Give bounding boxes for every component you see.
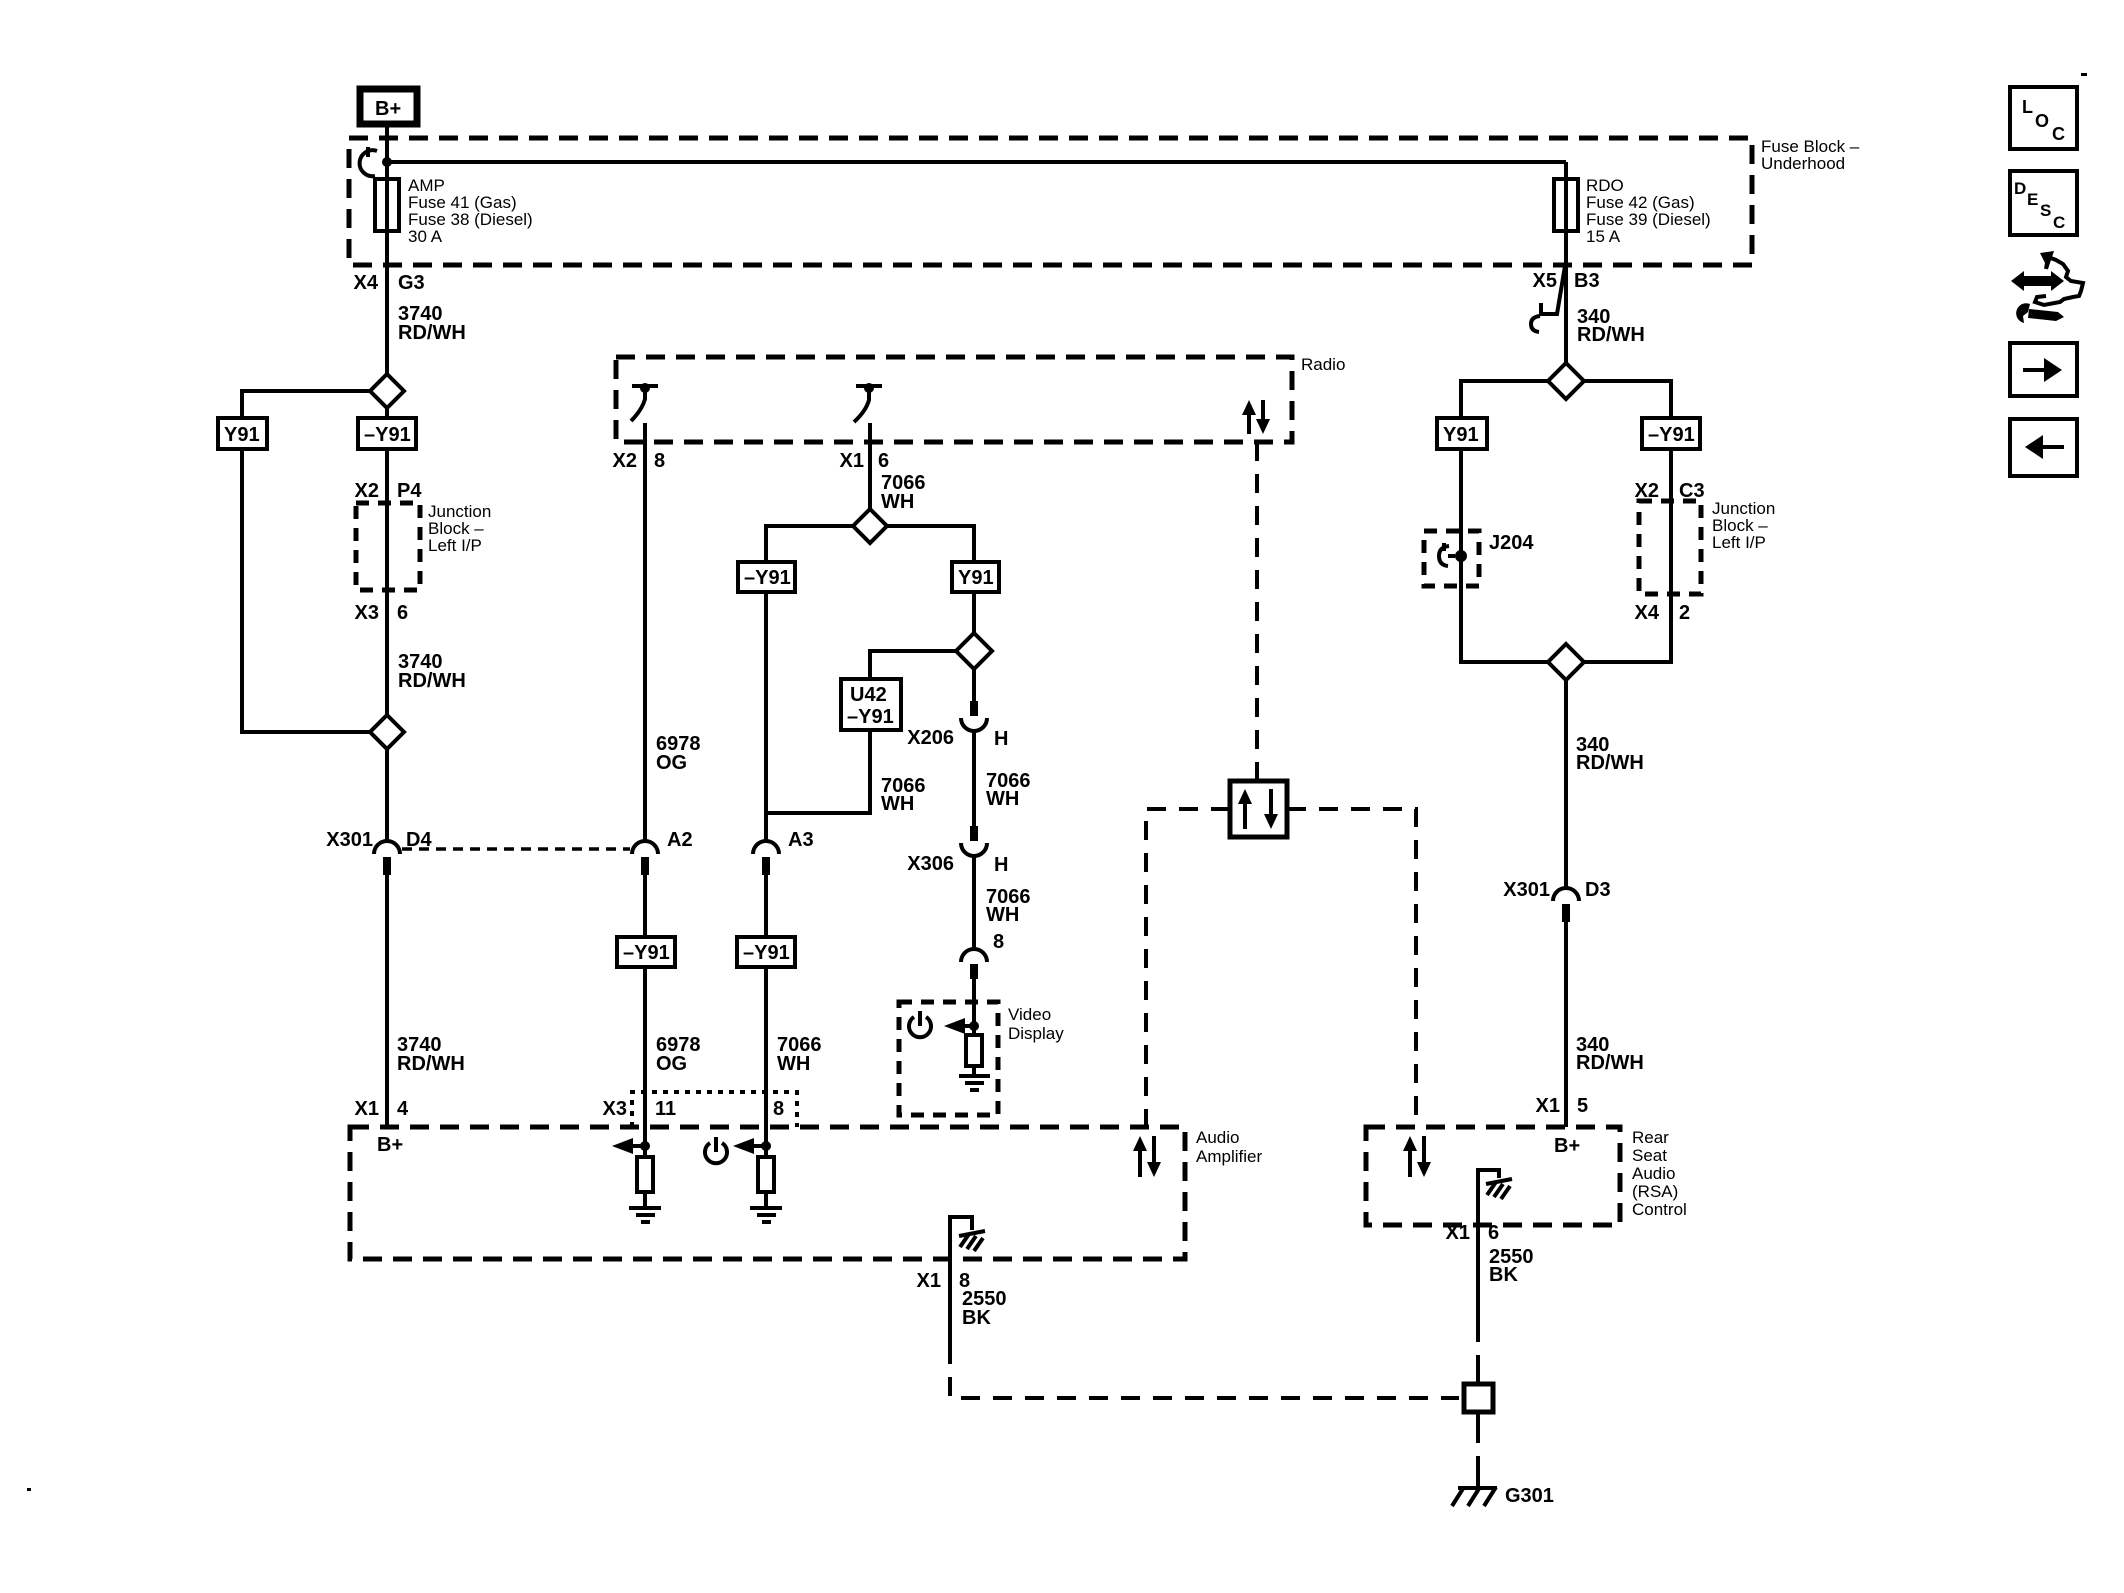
svg-text:B3: B3 <box>1574 270 1600 292</box>
Audio Amplifier dashed box <box>350 1127 1185 1259</box>
svg-text:L: L <box>2022 97 2033 117</box>
node splice diamond S4 <box>956 633 992 669</box>
pin X1 6 rsa <box>1446 1222 1500 1244</box>
svg-text:BK: BK <box>962 1307 991 1329</box>
chassis ground amp internal <box>950 1217 985 1259</box>
ground amp 1 <box>629 1192 661 1222</box>
icon DESC box <box>2010 171 2077 235</box>
svg-text:X1: X1 <box>355 1098 379 1120</box>
power symbol video <box>909 1011 931 1037</box>
splice square connector <box>1464 1372 1493 1424</box>
wire dashed link box to RSA <box>1287 809 1416 1127</box>
wire S5 to Y91 right <box>1461 381 1548 418</box>
svg-text:B+: B+ <box>1554 1135 1580 1157</box>
svg-text:RD/WH: RD/WH <box>398 322 466 344</box>
svg-text:–Y91: –Y91 <box>364 424 411 446</box>
wire -Y91 right through junction block <box>1584 449 1671 662</box>
svg-text:Underhood: Underhood <box>1761 154 1845 173</box>
pin X1 5 <box>1536 1095 1589 1117</box>
node bus junction <box>382 157 392 167</box>
svg-text:X3: X3 <box>355 602 379 624</box>
svg-text:Video: Video <box>1008 1005 1051 1024</box>
icon LOC box <box>2010 87 2077 149</box>
connector X306 H <box>907 826 1008 876</box>
node splice diamond S2 <box>370 715 404 749</box>
option box Y91 (left) <box>218 418 267 449</box>
Audio Amplifier label <box>1196 1128 1262 1166</box>
svg-text:OG: OG <box>656 1053 687 1075</box>
svg-text:Y91: Y91 <box>1443 424 1479 446</box>
option box -Y91 (amp wire 2) <box>737 937 795 967</box>
svg-text:U42: U42 <box>850 684 887 706</box>
svg-text:B+: B+ <box>377 1134 403 1156</box>
svg-text:15 A: 15 A <box>1586 227 1621 246</box>
svg-text:Control: Control <box>1632 1200 1687 1219</box>
power symbol amp <box>705 1137 727 1163</box>
pin X1 4 <box>355 1098 409 1120</box>
Rear Seat Audio RSA dashed box <box>1366 1127 1620 1225</box>
svg-text:Audio: Audio <box>1196 1128 1239 1147</box>
wire into video display <box>972 979 976 1035</box>
Radio dashed box <box>616 357 1292 442</box>
Junction Block label (left) <box>428 502 491 555</box>
Junction Block - Left I/P dashed box (right) <box>1639 501 1701 594</box>
svg-text:Y91: Y91 <box>224 424 260 446</box>
svg-text:WH: WH <box>777 1053 810 1075</box>
option box Y91 (right) <box>1437 418 1487 449</box>
switch SW1 in radio <box>631 383 658 421</box>
svg-text:Radio: Radio <box>1301 355 1345 374</box>
wire 3740 RD/WH upper <box>385 231 389 375</box>
label 340 RD/WH lower <box>1576 1034 1644 1074</box>
bus wire B+ feed <box>387 160 1566 164</box>
Fuse Block - Underhood dashed box <box>349 138 1752 265</box>
ground video <box>959 1066 990 1090</box>
Video Display dashed box <box>899 1002 998 1115</box>
svg-text:Left I/P: Left I/P <box>428 536 482 555</box>
svg-text:5: 5 <box>1577 1095 1588 1117</box>
svg-text:Y91: Y91 <box>958 567 994 589</box>
svg-text:X1: X1 <box>917 1270 941 1292</box>
B+ power source box <box>360 89 417 124</box>
svg-text:2: 2 <box>1679 602 1690 624</box>
svg-text:D3: D3 <box>1585 879 1611 901</box>
svg-text:C: C <box>2053 213 2065 232</box>
label 3740 RD/WH lower <box>397 1034 465 1075</box>
svg-text:O: O <box>2035 111 2049 131</box>
pin X1 6 <box>840 450 890 472</box>
svg-text:RD/WH: RD/WH <box>398 670 466 692</box>
RSA label <box>1632 1128 1687 1219</box>
svg-text:X4: X4 <box>1635 602 1660 624</box>
svg-text:WH: WH <box>881 793 914 815</box>
pin X2 8 <box>613 450 666 472</box>
svg-text:Seat: Seat <box>1632 1146 1667 1165</box>
svg-text:RD/WH: RD/WH <box>1576 752 1644 774</box>
pin X5 B3 <box>1533 270 1600 292</box>
label 7066 WH lower <box>777 1034 822 1075</box>
svg-text:RD/WH: RD/WH <box>1576 1052 1644 1074</box>
svg-text:E: E <box>2027 190 2038 209</box>
resistor video <box>966 1035 982 1066</box>
svg-text:BK: BK <box>1489 1264 1518 1286</box>
svg-text:WH: WH <box>881 491 914 513</box>
wire fuse RDO drop <box>1564 162 1568 179</box>
svg-text:X4: X4 <box>354 272 379 294</box>
wire X5 B3 drop <box>1564 231 1568 364</box>
wire A3 to -Y91 (amp wire 2) <box>764 875 768 937</box>
wire S4 down to X206 <box>972 669 976 703</box>
resistor amp 1 <box>637 1157 653 1192</box>
svg-text:Display: Display <box>1008 1024 1064 1043</box>
resistor amp 2 <box>758 1157 774 1192</box>
wire diamond to Y91 branch <box>242 391 370 418</box>
pin X3 6 <box>355 602 409 624</box>
wire 340 RD/WH S6 to X301 D3 <box>1564 680 1568 887</box>
wire B+ to fuse block <box>385 127 389 179</box>
connector pin 8 video display <box>961 931 1004 979</box>
svg-text:4: 4 <box>397 1098 409 1120</box>
label 340 RD/WH mid <box>1576 734 1644 774</box>
clip symbol at X5 <box>1531 266 1565 332</box>
node splice diamond S5 <box>1548 363 1584 399</box>
wire dashed to splice square <box>1476 1323 1480 1374</box>
svg-text:G301: G301 <box>1505 1485 1554 1507</box>
clip symbol at B+ feed <box>360 150 377 176</box>
Junction Block label (right) <box>1712 499 1775 552</box>
svg-text:–Y91: –Y91 <box>1648 424 1695 446</box>
wire radio X1-6 output <box>868 423 872 510</box>
svg-text:8: 8 <box>773 1098 784 1120</box>
wire Y91 to splice S4 <box>972 592 976 634</box>
label 2550 BK amp <box>962 1288 1007 1329</box>
Fuse Block label <box>1761 137 1860 173</box>
label 3740 RD/WH mid <box>398 651 466 692</box>
svg-text:–Y91: –Y91 <box>623 942 670 964</box>
pin X4 G3 <box>354 272 425 294</box>
svg-text:–Y91: –Y91 <box>743 942 790 964</box>
ground amp 2 <box>750 1192 782 1222</box>
fuse F42 RDO <box>1554 179 1578 231</box>
icon arrow right box <box>2010 343 2077 396</box>
svg-text:RD/WH: RD/WH <box>1577 324 1645 346</box>
icon arrow left box <box>2010 419 2077 476</box>
label 6978 OG <box>656 733 701 774</box>
wire 7066 WH X306 to video <box>972 856 976 948</box>
label 3740 RD/WH <box>398 303 466 344</box>
node splice diamond S3 <box>853 509 887 543</box>
svg-text:A3: A3 <box>788 829 814 851</box>
pin X1 8 amp <box>917 1270 971 1292</box>
wire dashed amp ground run <box>950 1345 1459 1398</box>
pin X3 11 8 <box>603 1098 785 1120</box>
option box -Y91 (radio) <box>738 562 795 592</box>
svg-text:H: H <box>994 728 1008 750</box>
connector A3 <box>753 829 814 875</box>
wire -Y91 radio to A3 <box>764 592 768 840</box>
label 6978 OG lower <box>656 1034 701 1075</box>
label 7066 WH top <box>881 472 926 513</box>
svg-text:6: 6 <box>878 450 889 472</box>
svg-text:6: 6 <box>1488 1222 1499 1244</box>
chassis ground rsa internal <box>1478 1170 1512 1225</box>
arrow output amp wire 2 <box>733 1138 771 1154</box>
svg-text:6: 6 <box>397 602 408 624</box>
svg-text:G3: G3 <box>398 272 425 294</box>
option box Y91 (radio) <box>952 562 999 592</box>
connector X206 H <box>907 701 1008 750</box>
connector box X3 dotted <box>632 1092 797 1127</box>
option box -Y91 (right) <box>1642 418 1700 449</box>
pin X4 2 <box>1635 602 1691 624</box>
svg-text:8: 8 <box>654 450 665 472</box>
switch SW2 in radio <box>854 383 882 422</box>
label 7066 WH <box>986 886 1031 926</box>
svg-text:Left I/P: Left I/P <box>1712 533 1766 552</box>
option box -Y91 (left main) <box>358 408 416 449</box>
svg-text:P4: P4 <box>397 480 422 502</box>
svg-text:A2: A2 <box>667 829 693 851</box>
wire dashed below square <box>1476 1424 1480 1464</box>
svg-text:X206: X206 <box>907 727 954 749</box>
rsa arrows <box>1403 1136 1431 1177</box>
svg-text:Audio: Audio <box>1632 1164 1675 1183</box>
svg-text:8: 8 <box>993 931 1004 953</box>
wire S4 to U42 <box>870 651 956 679</box>
label 7066 WH <box>986 770 1031 810</box>
wire 3740 RD/WH to amplifier <box>385 875 389 1127</box>
fuse F41 label <box>408 176 533 246</box>
wire splice to X301 D4 <box>385 749 389 840</box>
svg-text:WH: WH <box>986 904 1019 926</box>
label 340 RD/WH top <box>1577 306 1645 346</box>
svg-text:30 A: 30 A <box>408 227 443 246</box>
svg-text:11: 11 <box>655 1098 676 1120</box>
svg-text:(RSA): (RSA) <box>1632 1182 1678 1201</box>
connector X301 D4 <box>374 841 400 875</box>
wire radio X2-8 output <box>643 423 647 840</box>
svg-text:X301: X301 <box>1503 879 1550 901</box>
svg-text:X2: X2 <box>355 480 379 502</box>
wire S3 to Y91 radio right <box>887 526 974 562</box>
wire dashed link box to amplifier <box>1146 809 1230 1127</box>
wire 340 RD/WH to RSA <box>1564 922 1568 1127</box>
wire A2 to -Y91 <box>643 875 647 937</box>
wire 7066 WH to amp <box>764 967 768 1157</box>
ground G301 <box>1452 1462 1497 1506</box>
wire dashed link D4 to A2 <box>402 847 630 851</box>
wire 7066 WH X206-X306 <box>972 731 976 828</box>
svg-text:C: C <box>2052 124 2065 144</box>
svg-text:X306: X306 <box>907 853 954 875</box>
svg-text:D: D <box>2014 179 2026 198</box>
node splice diamond S1 <box>370 374 404 408</box>
svg-text:J204: J204 <box>1489 532 1534 554</box>
amp arrows <box>1133 1136 1161 1177</box>
fuse F41 AMP <box>375 179 399 231</box>
page mark <box>2081 73 2087 76</box>
pin X301 D4 <box>326 829 432 851</box>
wire rsa ground X1 6 <box>1476 1225 1480 1323</box>
fuse F42 label <box>1586 176 1711 246</box>
wire amp ground X1 8 <box>948 1259 952 1345</box>
option box U42 -Y91 <box>841 679 901 730</box>
svg-text:X1: X1 <box>840 450 864 472</box>
svg-text:X2: X2 <box>613 450 637 472</box>
icon wrench and pointer <box>2011 251 2083 323</box>
wire dashed radio to serial link box <box>1255 442 1259 781</box>
wire Y91 right branch down <box>1461 449 1548 662</box>
wire Y91 branch down to splice <box>242 449 370 732</box>
svg-text:H: H <box>994 854 1008 876</box>
svg-text:Rear: Rear <box>1632 1128 1669 1147</box>
pin X2 C3 <box>1635 480 1705 502</box>
svg-text:X301: X301 <box>326 829 373 851</box>
svg-text:Amplifier: Amplifier <box>1196 1147 1262 1166</box>
svg-text:X1: X1 <box>1446 1222 1470 1244</box>
radio data link arrows <box>1242 400 1270 434</box>
pin X301 D3 <box>1503 879 1610 901</box>
svg-text:WH: WH <box>986 788 1019 810</box>
pin X2 P4 <box>355 480 423 502</box>
svg-text:S: S <box>2040 201 2051 220</box>
svg-text:OG: OG <box>656 752 687 774</box>
wire -Y91 down through junction block <box>385 449 389 715</box>
label 7066 WH U42 branch <box>881 775 926 815</box>
wire U42 to join <box>766 730 870 813</box>
svg-text:X3: X3 <box>603 1098 627 1120</box>
splice J204 <box>1439 543 1467 566</box>
svg-text:X5: X5 <box>1533 270 1557 292</box>
svg-text:–Y91: –Y91 <box>847 706 894 728</box>
Junction Block - Left I/P dashed box (left) <box>356 503 420 590</box>
wire S3 to -Y91 radio left <box>766 526 853 562</box>
svg-text:–Y91: –Y91 <box>744 567 791 589</box>
connector X301 D3 <box>1553 888 1579 922</box>
Video Display label <box>1008 1005 1064 1043</box>
label 2550 BK rsa <box>1489 1246 1534 1286</box>
option box -Y91 (amp wire 1) <box>617 937 675 967</box>
splice J204 dashed box <box>1424 531 1479 586</box>
svg-text:X1: X1 <box>1536 1095 1560 1117</box>
node splice diamond S6 <box>1548 644 1584 680</box>
wire 6978 OG to amp <box>643 967 647 1157</box>
arrow output amp wire 1 <box>612 1138 650 1154</box>
arrow to power video <box>944 1018 979 1034</box>
wire S5 to -Y91 right <box>1584 381 1671 418</box>
svg-text:B+: B+ <box>375 98 401 120</box>
serial data link box <box>1230 781 1287 837</box>
svg-text:RD/WH: RD/WH <box>397 1053 465 1075</box>
connector A2 <box>632 829 693 875</box>
